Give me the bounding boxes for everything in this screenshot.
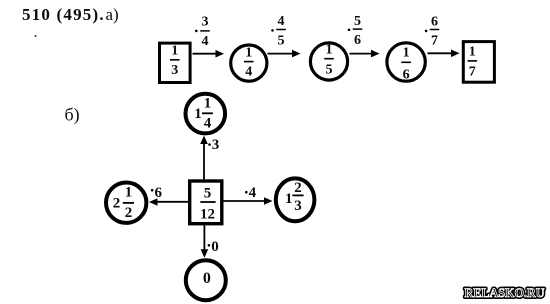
svg-text:6: 6 — [155, 185, 163, 201]
svg-text:2: 2 — [294, 180, 302, 196]
svg-text:7: 7 — [431, 33, 438, 48]
svg-text:4: 4 — [202, 34, 209, 49]
label ·4 — [245, 185, 257, 201]
svg-text:4: 4 — [278, 14, 285, 29]
svg-text:3: 3 — [202, 14, 209, 29]
label ·4/5 — [271, 14, 286, 49]
svg-text:7: 7 — [469, 65, 476, 80]
watermark RELASKO.RU — [465, 286, 545, 300]
box 5/12 (center) — [190, 181, 222, 224]
svg-text:5: 5 — [204, 186, 212, 202]
label ·6/7 — [425, 14, 439, 48]
circle 0 (bottom) — [186, 260, 226, 300]
svg-text:2: 2 — [125, 205, 133, 221]
box 1/7 — [463, 42, 494, 83]
svg-text:6: 6 — [431, 14, 438, 29]
svg-text:б): б) — [65, 105, 80, 126]
svg-text:1: 1 — [326, 43, 333, 58]
svg-text:1: 1 — [403, 45, 410, 60]
circle 1/6 — [387, 43, 425, 83]
label ·5/6 — [348, 14, 363, 48]
wire arrow right — [224, 197, 273, 205]
wire arrow 4 — [428, 50, 460, 58]
wire arrow 3 — [350, 50, 380, 58]
svg-text:0: 0 — [211, 239, 219, 255]
svg-text:1: 1 — [171, 44, 178, 59]
svg-text:1: 1 — [194, 106, 202, 122]
circle 1/4 — [231, 45, 267, 81]
svg-text:510 (495).: 510 (495). — [22, 5, 105, 24]
svg-text:3: 3 — [212, 137, 220, 153]
svg-text:3: 3 — [171, 63, 178, 78]
wire arrow 1 — [193, 50, 225, 58]
svg-text:5: 5 — [354, 14, 361, 29]
svg-text:2: 2 — [113, 196, 121, 212]
label ·3/4 — [195, 14, 210, 49]
box 1/3 — [160, 43, 191, 82]
svg-text:RELASKO.RU: RELASKO.RU — [465, 286, 545, 300]
svg-text:5: 5 — [326, 62, 333, 77]
circle 1 2/3 (right) — [276, 178, 315, 221]
svg-text:6: 6 — [354, 33, 361, 48]
svg-text:3: 3 — [294, 198, 302, 214]
svg-text:4: 4 — [249, 185, 257, 201]
label ·3 — [208, 137, 219, 153]
label ·6 — [151, 185, 163, 201]
svg-text:1: 1 — [245, 45, 252, 60]
svg-text:6: 6 — [403, 67, 410, 82]
circle 1 1/4 (top) — [186, 94, 226, 134]
svg-text:1: 1 — [285, 191, 293, 207]
label ·0 — [208, 239, 219, 255]
wire arrow down — [201, 225, 209, 257]
svg-text:5: 5 — [278, 34, 285, 49]
title "510 (495). a)" — [22, 5, 119, 24]
circle 2 1/2 (left) — [106, 183, 146, 223]
stray speck right of circle 1/6 — [418, 74, 420, 76]
stray speck — [35, 35, 37, 37]
svg-text:1: 1 — [204, 95, 212, 111]
svg-text:1: 1 — [125, 184, 133, 200]
svg-text:0: 0 — [203, 270, 211, 287]
svg-text:a): a) — [106, 5, 119, 24]
svg-text:12: 12 — [200, 207, 215, 223]
svg-text:4: 4 — [204, 115, 212, 131]
svg-text:1: 1 — [469, 45, 476, 60]
wire arrow left — [149, 198, 188, 206]
circle 1/5 — [310, 43, 347, 81]
wire arrow up — [200, 136, 208, 180]
wire arrow 2 — [268, 50, 301, 58]
svg-text:4: 4 — [245, 65, 252, 80]
